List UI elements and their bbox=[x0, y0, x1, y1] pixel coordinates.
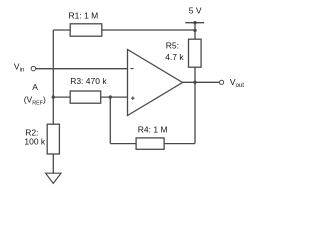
svg-text:R3: 470 k: R3: 470 k bbox=[70, 76, 107, 86]
svg-text:Vin: Vin bbox=[14, 61, 24, 73]
wire R4 right bbox=[164, 143, 195, 145]
terminal Vout bbox=[220, 77, 245, 89]
wire R1 right to output net bbox=[102, 29, 195, 31]
wire R2 bottom to ground bbox=[52, 154, 54, 173]
resistor R3 bbox=[70, 76, 107, 103]
wire vertical bus R1/node A/R2 bbox=[52, 30, 54, 124]
resistor R4 bbox=[136, 124, 167, 149]
svg-text:R4: 1 M: R4: 1 M bbox=[138, 124, 168, 134]
svg-text:4.7 k: 4.7 k bbox=[165, 52, 184, 62]
svg-text:A: A bbox=[32, 82, 38, 92]
resistor R1 bbox=[69, 11, 102, 37]
node R1/supply junction bbox=[193, 29, 196, 32]
svg-text:5 V: 5 V bbox=[189, 5, 202, 15]
wire R3 right to op-amp noninverting input bbox=[101, 96, 127, 98]
svg-text:Vout: Vout bbox=[230, 77, 244, 89]
node A junction bbox=[52, 95, 55, 98]
wire R4 left bbox=[110, 143, 136, 145]
ground bbox=[46, 173, 61, 183]
wire 5V vertical to R5 bbox=[194, 23, 196, 40]
wire Vin to op-amp inverting input bbox=[35, 68, 127, 70]
wire output node down to R4 bbox=[194, 82, 196, 143]
terminal Vin bbox=[14, 61, 36, 73]
svg-text:R5:: R5: bbox=[166, 40, 179, 50]
node noninverting input junction bbox=[109, 95, 112, 98]
pin noninverting input plus bbox=[131, 97, 135, 99]
wire node A to R3 left bbox=[53, 96, 70, 98]
op-amp U1 bbox=[128, 50, 183, 116]
svg-text:(VREF): (VREF) bbox=[24, 95, 46, 107]
wire 5V supply bar bbox=[185, 22, 204, 24]
svg-text:R1: 1 M: R1: 1 M bbox=[69, 11, 99, 21]
wire R5 bottom to output node bbox=[194, 67, 196, 82]
resistor R2 bbox=[24, 124, 59, 154]
node output junction bbox=[193, 81, 196, 84]
wire noninverting input down to R4 bbox=[109, 97, 111, 144]
resistor R5 bbox=[165, 39, 201, 67]
node 5V junction bbox=[193, 21, 196, 24]
svg-text:100 k: 100 k bbox=[24, 136, 46, 146]
wire op-amp output to Vout terminal bbox=[183, 81, 220, 83]
wire R1 left bbox=[53, 29, 70, 31]
pin inverting input minus bbox=[130, 68, 133, 70]
